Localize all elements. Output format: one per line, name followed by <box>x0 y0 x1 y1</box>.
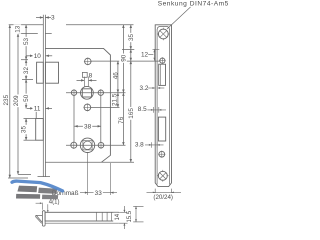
svg-text:4(1): 4(1) <box>49 200 60 206</box>
svg-text:12: 12 <box>141 51 149 58</box>
svg-text:8: 8 <box>89 73 93 80</box>
svg-text:35: 35 <box>21 126 28 134</box>
svg-text:15.5: 15.5 <box>127 210 133 222</box>
svg-text:10: 10 <box>34 53 42 60</box>
svg-text:11: 11 <box>34 105 41 112</box>
svg-text:21.5: 21.5 <box>111 93 118 106</box>
svg-text:46: 46 <box>113 72 120 80</box>
svg-text:235: 235 <box>3 94 10 105</box>
svg-text:8.5: 8.5 <box>138 106 147 113</box>
svg-text:209: 209 <box>13 95 20 106</box>
svg-text:13: 13 <box>15 25 22 33</box>
svg-text:38: 38 <box>84 124 92 131</box>
svg-text:3: 3 <box>51 15 55 22</box>
svg-text:50: 50 <box>23 94 30 102</box>
svg-text:165: 165 <box>128 108 135 119</box>
svg-text:(20/24): (20/24) <box>153 194 173 201</box>
svg-text:33: 33 <box>95 190 103 197</box>
svg-text:35: 35 <box>128 34 135 42</box>
svg-text:90: 90 <box>120 54 127 62</box>
svg-text:Senkung DIN74-Am5: Senkung DIN74-Am5 <box>158 1 229 8</box>
svg-text:32: 32 <box>23 67 30 75</box>
svg-text:3.8: 3.8 <box>135 142 144 149</box>
svg-text:3.2: 3.2 <box>140 85 149 92</box>
svg-text:76: 76 <box>118 116 125 124</box>
svg-text:14: 14 <box>115 213 121 220</box>
svg-text:53: 53 <box>23 38 30 46</box>
